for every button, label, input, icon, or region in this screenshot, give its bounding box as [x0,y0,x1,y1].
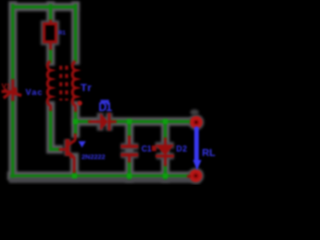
wire emitter to rail [73,172,76,177]
shadow below bottom rail [9,178,200,184]
bubble stub [187,175,191,178]
voltage marker bar [193,127,202,171]
svg-text:V1: V1 [2,82,11,91]
svg-text:C1: C1 [142,145,153,154]
node C1 bottom [127,173,132,178]
svg-text:RL: RL [202,148,215,159]
port bubble top [192,118,201,127]
wire left vertical upper [11,6,14,80]
green wires [12,6,198,179]
wire resistor top stub [49,6,52,20]
transformer phase dot [77,101,82,106]
junction dots [72,119,168,178]
wire D2 top stub [164,123,167,139]
wire left vertical lower [11,101,14,176]
svg-text:D1: D1 [99,102,113,114]
node secondary/diode junction [73,119,78,124]
diode D1 [88,113,117,131]
wire output rail [111,120,191,123]
wire right vertical [74,6,77,61]
wire top rail [13,6,76,9]
svg-text:2N2222: 2N2222 [82,154,106,161]
transformer winding leads [51,105,76,112]
wire resistor to primary [49,50,52,62]
wire secondary bottom [74,112,77,134]
node D2 bottom [163,173,168,178]
wire C1 bottom stub [128,163,131,179]
component halos [13,24,201,181]
AC source V1 [2,79,22,101]
wire D2 bottom stub [164,166,167,179]
diode D2 [152,138,174,167]
node C1 top [127,119,132,124]
wire halos (grey glow under all wires) [12,6,198,179]
svg-text:Tr: Tr [81,82,93,94]
node emitter rail [72,173,77,178]
wire C1 top stub [128,123,131,136]
capacitor C1 [121,136,138,163]
transformer Tr primary winding [48,62,51,106]
transformer Tr secondary winding [72,62,75,106]
node D2 top [163,119,168,124]
label Q1 tick [78,141,86,147]
wire diode feed [76,120,90,123]
port bubble bottom [191,171,200,180]
transformer core lines [59,66,62,101]
transistor Q1 [59,134,75,174]
svg-text:R1: R1 [59,30,66,36]
svg-text:D2: D2 [176,145,187,154]
wire primary bottom to base [51,111,59,150]
resistor R1 [44,20,56,51]
svg-text:Vac: Vac [26,87,44,97]
wire bottom rail [12,174,198,177]
grey blob above top bubble [190,109,199,115]
